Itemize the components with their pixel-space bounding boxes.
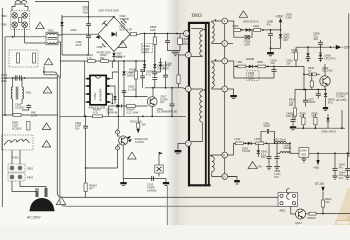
AC plug body	[30, 198, 54, 210]
filter center block	[18, 18, 21, 23]
svg-text:222P: 222P	[264, 124, 270, 128]
diode D90B	[117, 104, 122, 107]
wire Q901 collector bus	[145, 87, 183, 89]
node J12	[111, 103, 113, 105]
wire bottom bus	[124, 173, 167, 179]
bridge rectifier D902 outline	[98, 17, 130, 52]
wire Q8A4 base	[291, 207, 296, 215]
diode D909	[153, 64, 156, 67]
svg-text:400V: 400V	[182, 42, 188, 46]
T803 pin 6	[222, 86, 228, 92]
capacitor C906B stack	[144, 61, 146, 70]
svg-text:1000P: 1000P	[308, 100, 316, 104]
warning triangle W7	[118, 41, 127, 48]
inductor L859	[234, 29, 241, 32]
svg-text:L8Q2: L8Q2	[253, 24, 260, 28]
page edge shadow bottom-right beige	[335, 188, 350, 225]
capacitor C80B	[270, 30, 272, 33]
frame outer line	[44, 75, 278, 207]
connector S802 pin2	[18, 166, 22, 170]
transformer core line B	[208, 24, 210, 186]
secondary rail	[224, 24, 226, 174]
svg-text:S802: S802	[27, 167, 34, 171]
IC840 regulator box	[299, 148, 309, 158]
svg-text:4R7: 4R7	[89, 187, 94, 191]
cap C913 in series	[152, 176, 154, 181]
IC901 pin 7	[106, 85, 109, 87]
line filter FL960 top choke	[15, 1, 27, 4]
capacitor C848	[276, 143, 278, 156]
ground G6	[234, 180, 240, 182]
node J40	[341, 127, 343, 129]
emitter bus	[295, 89, 326, 91]
node J8	[144, 33, 146, 35]
opto pin circle 4	[116, 130, 120, 134]
wire pin11 out	[228, 143, 234, 155]
svg-text:0.22 1/4W: 0.22 1/4W	[127, 111, 139, 115]
primary winding lower	[191, 89, 202, 91]
node J29	[330, 46, 332, 48]
zener D80b	[327, 114, 329, 118]
node J32	[267, 66, 269, 68]
node J6	[88, 16, 90, 18]
node J31	[255, 66, 257, 68]
zener D905	[113, 96, 116, 99]
ground G13	[303, 157, 305, 159]
node J48	[113, 60, 115, 62]
T803 pin 9	[222, 18, 228, 24]
node J30	[235, 66, 237, 68]
svg-text:Q8A4: Q8A4	[295, 221, 302, 225]
wire pin5	[110, 101, 111, 103]
warning triangle W10	[248, 162, 257, 169]
node J17	[151, 115, 153, 117]
svg-text:500V: 500V	[248, 76, 254, 80]
wire Q802 collector	[324, 64, 326, 76]
node J10	[167, 33, 169, 35]
polarity arrow	[96, 35, 100, 39]
winding dot S3	[210, 155, 212, 157]
dashed box R960 network	[9, 50, 38, 67]
svg-text:IC840: IC840	[300, 149, 307, 153]
IC901 pin 6	[106, 93, 109, 95]
degaussing coil dashed box	[2, 135, 34, 150]
node J4	[4, 114, 6, 116]
rail arrow +36V	[279, 18, 282, 22]
ground G9	[266, 167, 272, 170]
zener D80N	[325, 90, 327, 94]
svg-text:BY2: BY2	[328, 100, 333, 104]
svg-text:TH60: TH60	[12, 156, 19, 160]
ground G4	[175, 150, 182, 152]
svg-text:2SC4804(BP)LB5: 2SC4804(BP)LB5	[157, 110, 178, 114]
warning triangle W3	[43, 87, 52, 94]
filter terminal circle D	[22, 22, 28, 28]
resistor R910	[137, 116, 139, 123]
IC901 pin 8	[106, 78, 109, 80]
svg-text:267: 267	[130, 70, 135, 74]
resistor R817	[294, 90, 296, 109]
svg-text:AC250V: AC250V	[15, 106, 25, 110]
wire to ground G7	[270, 47, 272, 49]
IC901 pin 3	[87, 93, 90, 95]
zener D842	[257, 143, 259, 150]
T803 pin 1	[183, 31, 189, 37]
capacitor C826	[317, 90, 319, 94]
wire mains top row	[62, 16, 114, 18]
diode D908	[143, 64, 146, 67]
resistor R8A2	[322, 192, 324, 200]
winding dot S2	[215, 59, 217, 61]
svg-text:33V: 33V	[314, 37, 319, 41]
ground G8	[290, 126, 296, 128]
connector P802 pin2	[18, 175, 22, 179]
capacitor C842	[334, 153, 336, 168]
wire pin10 to ground	[228, 177, 237, 181]
diode D803	[307, 47, 309, 53]
node J24	[262, 29, 264, 31]
filter terminal circle C	[12, 22, 18, 28]
IC901 pin 5	[106, 101, 109, 103]
wire T962 out lower	[58, 42, 61, 78]
T803 pin 11	[222, 152, 228, 158]
inductor L850	[275, 141, 287, 143]
component C819	[245, 35, 250, 39]
svg-text:36V: 36V	[283, 38, 288, 42]
node J21	[171, 87, 173, 89]
wire emitter row left drop	[108, 106, 110, 116]
emitter row	[109, 105, 148, 107]
svg-text:D901: D901	[71, 28, 78, 32]
svg-text:HD80B: HD80B	[246, 57, 255, 61]
node J2	[12, 77, 14, 79]
diode D901	[61, 17, 63, 40]
T803 pin 8	[222, 41, 228, 47]
svg-text:P802: P802	[27, 176, 34, 180]
wire pin2	[85, 85, 87, 87]
wire T962 out upper	[58, 15, 62, 35]
background right page	[172, 0, 350, 225]
svg-text:400V: 400V	[163, 66, 169, 70]
svg-text:C967 4700P 250V: C967 4700P 250V	[98, 9, 119, 13]
capacitor C904	[85, 116, 87, 126]
svg-text:10u: 10u	[271, 61, 276, 65]
opto pin circle 3	[116, 146, 120, 150]
svg-text:1u 50V: 1u 50V	[128, 87, 136, 91]
connector P802 pin1	[10, 175, 14, 179]
capacitor C840	[292, 114, 294, 119]
connector S802 pin1	[10, 166, 14, 170]
wire pin5 to ground	[178, 144, 185, 151]
filter terminal circle B	[22, 13, 28, 19]
wire left of row3 ground	[228, 176, 237, 178]
node J7	[113, 16, 115, 18]
svg-text:7809: 7809	[300, 152, 306, 156]
wire main DC bus	[137, 33, 184, 36]
resistor R914	[178, 54, 180, 75]
wire stub R806	[154, 45, 156, 65]
node J3	[24, 77, 26, 79]
svg-text:222P: 222P	[244, 42, 250, 46]
svg-text:50V: 50V	[261, 155, 266, 159]
resistor R961	[17, 53, 20, 63]
node J46	[347, 152, 349, 154]
wire pin1	[85, 78, 87, 80]
ground G5	[230, 95, 236, 97]
wire top bus	[35, 2, 89, 17]
svg-text:222P: 222P	[76, 43, 82, 47]
ground cap stub b	[318, 59, 323, 61]
ground G10	[274, 167, 280, 170]
transformer T961	[13, 78, 22, 115]
svg-text:50V: 50V	[75, 126, 80, 130]
bridge diode b	[102, 40, 108, 47]
P801 corner circle a	[280, 194, 283, 197]
resistor R820	[311, 74, 313, 81]
node J38	[303, 127, 305, 129]
wire pin9 out	[228, 21, 234, 30]
label C825 box	[247, 71, 260, 81]
inductor L8A2	[280, 152, 291, 154]
ground G12	[345, 176, 350, 179]
wire pin7	[110, 86, 115, 90]
svg-text:S9536B: S9536B	[120, 17, 130, 21]
svg-text:100uH: 100uH	[284, 146, 292, 150]
wire lower AC row	[2, 114, 58, 116]
zener D801	[279, 34, 282, 37]
wire L850 out	[286, 143, 290, 154]
capacitor C836	[320, 40, 322, 42]
snubber loop row2	[234, 66, 274, 78]
transformer T803 frame top	[188, 22, 210, 24]
wire Q8A4 emitter row	[306, 213, 310, 215]
svg-text:2W: 2W	[289, 103, 293, 107]
resistor R805	[144, 34, 146, 65]
node J25	[270, 29, 272, 31]
wire x128	[123, 61, 125, 116]
capacitor C847	[268, 143, 270, 156]
svg-text:5360: 5360	[1, 23, 7, 27]
IC901 pin 1	[87, 78, 90, 80]
svg-text:47u: 47u	[339, 165, 344, 169]
primary winding upper	[191, 29, 202, 31]
node junction J1	[12, 36, 14, 38]
wire pin6	[110, 94, 113, 104]
wire pin8	[110, 72, 119, 79]
transformer core line A	[205, 24, 207, 186]
wire IC840 in	[277, 152, 280, 154]
svg-text:F151M: F151M	[242, 149, 250, 153]
node J42	[266, 142, 268, 144]
node J52	[165, 87, 167, 89]
secondary winding C	[212, 155, 222, 157]
resistor R905	[85, 168, 87, 183]
node J51	[135, 60, 137, 62]
node J47	[322, 213, 324, 215]
wire pin4 to opto	[118, 134, 120, 136]
svg-text:400V: 400V	[83, 10, 89, 14]
svg-text:MC44608P: MC44608P	[99, 88, 103, 101]
node J13	[84, 115, 86, 117]
svg-text:100k: 100k	[150, 28, 156, 32]
svg-text:TLP621: TLP621	[135, 140, 145, 144]
wire AC line bus	[5, 37, 46, 115]
svg-text:0.5W: 0.5W	[286, 15, 293, 19]
svg-text:L806: L806	[166, 62, 172, 66]
resistor R819	[304, 73, 320, 75]
wire row113	[60, 115, 186, 117]
wire pin2 stub	[179, 54, 186, 56]
winding dot P2	[204, 89, 206, 91]
T803 pin 3	[185, 86, 191, 92]
warning triangle W8	[128, 152, 137, 159]
resistor R838	[302, 117, 305, 125]
node J15	[117, 115, 119, 117]
wire pin8 stub	[228, 43, 233, 45]
row3 bus	[233, 142, 290, 144]
warning triangle W2	[44, 58, 53, 65]
diode D841	[248, 142, 251, 146]
svg-text:5Z37-4.7R: 5Z37-4.7R	[120, 27, 132, 31]
svg-text:(2k): (2k)	[160, 100, 165, 104]
node J26	[280, 29, 282, 31]
svg-text:ST-5V: ST-5V	[315, 182, 325, 186]
node J14	[85, 115, 87, 117]
wire C841 loop	[261, 131, 275, 143]
svg-text:L850 20uH: L850 20uH	[273, 138, 286, 142]
node J5	[43, 71, 45, 73]
capacitor C962	[20, 75, 22, 80]
svg-text:R8A2A: R8A2A	[308, 216, 316, 220]
background left page	[0, 0, 172, 225]
diode D903	[113, 52, 115, 62]
secondary winding A	[212, 21, 222, 23]
ground G7	[267, 52, 274, 54]
zener D806	[320, 47, 322, 53]
resistor R8A2A	[309, 212, 316, 215]
svg-text:+36V: +36V	[275, 15, 284, 19]
capacitor C965	[26, 106, 31, 108]
wire to IC840	[291, 152, 299, 154]
resistor R906A	[127, 105, 136, 108]
IC901 pin 2	[87, 85, 90, 87]
wire connector to plug	[12, 181, 46, 197]
node J23	[249, 29, 251, 31]
capacitor C907	[171, 88, 173, 104]
svg-text:L855: L855	[257, 60, 263, 64]
node J18	[171, 115, 173, 117]
svg-text:47u: 47u	[267, 22, 272, 26]
svg-text:4.7k: 4.7k	[93, 111, 99, 115]
node J44	[317, 152, 319, 154]
svg-text:T803: T803	[191, 13, 202, 19]
node J43	[274, 142, 276, 144]
diode D800	[246, 28, 249, 32]
T803 pin 7	[222, 58, 228, 64]
secondary winding B	[212, 61, 222, 63]
bridge diode c	[112, 32, 117, 37]
transistor Q802	[320, 76, 330, 86]
svg-text:6.35V: 6.35V	[142, 50, 149, 54]
wire opto emitter down	[122, 145, 124, 178]
svg-text:L859: L859	[233, 24, 239, 28]
wire to connectors	[12, 150, 20, 164]
node J27	[307, 46, 309, 48]
resistor R839	[314, 117, 317, 125]
capacitor C954	[62, 17, 89, 55]
svg-text:T961: T961	[26, 91, 32, 95]
svg-text:4.7u: 4.7u	[146, 72, 152, 76]
wire cap row	[5, 77, 58, 79]
wire to T962 lower	[25, 42, 46, 44]
svg-text:R910: R910	[131, 119, 138, 123]
node J50	[144, 60, 146, 62]
bridge diode a	[102, 21, 108, 26]
node J28	[320, 46, 322, 48]
filter terminal circle A	[12, 13, 18, 19]
svg-text:L842: L842	[235, 137, 241, 141]
connector S802 dashed box	[8, 164, 25, 172]
line filter terminal box	[11, 11, 30, 30]
node J20	[135, 96, 137, 98]
connector P801 box	[278, 193, 298, 207]
svg-text:AC 220V: AC 220V	[27, 216, 41, 220]
resistor R902	[101, 60, 109, 63]
IC901 pin 4	[87, 101, 90, 103]
svg-text:L854: L854	[237, 60, 243, 64]
T803 pin 2	[185, 52, 191, 58]
svg-text:D800 RU3YX: D800 RU3YX	[243, 20, 259, 24]
capacitor C961	[15, 75, 17, 80]
transistor Q8A4	[296, 209, 306, 219]
T803 pin 5	[185, 141, 191, 147]
transformer T803 frame bottom	[188, 184, 211, 186]
wire stub	[43, 66, 45, 75]
wire Q901 collector	[152, 88, 154, 97]
svg-text:16V: 16V	[274, 175, 279, 179]
wire pin7 out	[228, 61, 234, 66]
svg-text:IC901: IC901	[93, 92, 97, 99]
svg-text:50V: 50V	[258, 164, 263, 168]
winding dot P1	[204, 29, 206, 31]
node J11	[176, 33, 178, 35]
capacitor C824	[273, 66, 275, 69]
svg-text:AC250V: AC250V	[12, 127, 22, 131]
svg-text:250V: 250V	[1, 79, 7, 83]
inductor L8Q2	[254, 29, 261, 32]
wire IC840 out	[309, 152, 350, 154]
optocoupler IC802 phototransistor	[119, 136, 128, 145]
svg-text:4.7: 4.7	[308, 69, 312, 73]
P801 corner circle c	[280, 202, 283, 205]
rail arrow B+	[137, 129, 140, 133]
line filter FL960 body outline	[12, 4, 28, 11]
row2 bus	[234, 65, 304, 67]
svg-text:7960: 7960	[1, 14, 7, 18]
diode D805	[249, 65, 252, 69]
svg-text:100u: 100u	[286, 114, 292, 118]
svg-text:T962: T962	[48, 29, 54, 33]
capacitor C827	[304, 90, 306, 101]
svg-text:C808: C808	[97, 45, 104, 49]
resistor R806 vertical	[154, 34, 156, 38]
wire pin4 stub	[183, 88, 185, 89]
wire IC top row	[60, 61, 145, 116]
+33V rail	[296, 46, 336, 48]
optocoupler photo arrows	[127, 136, 131, 140]
rail arrow +33V	[336, 45, 342, 50]
T803 pin 10	[222, 174, 228, 180]
